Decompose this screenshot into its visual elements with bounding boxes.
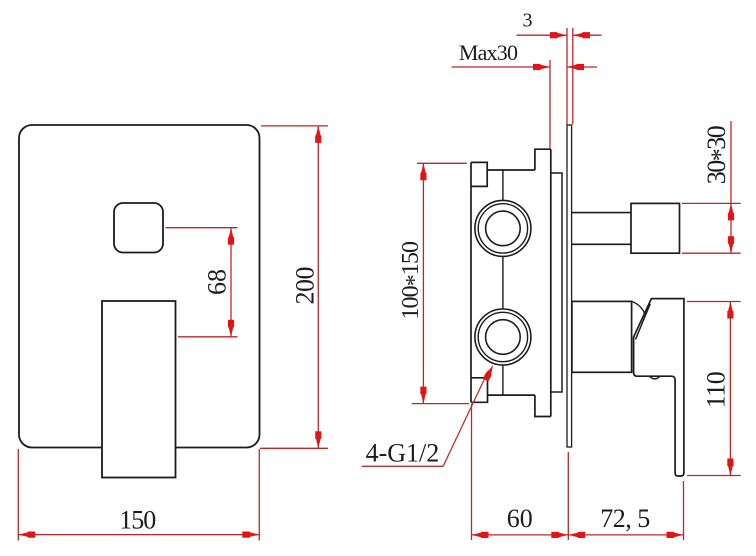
dimension 60 line bbox=[472, 534, 569, 536]
svg-text:30*30: 30*30 bbox=[702, 125, 735, 184]
svg-text:150: 150 bbox=[119, 506, 156, 535]
valve body outline bbox=[471, 149, 551, 416]
svg-text:110: 110 bbox=[702, 371, 731, 408]
svg-text:4-G1/2: 4-G1/2 bbox=[366, 439, 440, 468]
dimension 150 arrow left bbox=[18, 532, 29, 537]
dimension 3 extension line right bbox=[572, 28, 574, 125]
spout pipe bottom line bbox=[572, 243, 631, 245]
dimension 72,5 line bbox=[568, 534, 683, 536]
lever chamfer line bbox=[636, 304, 651, 340]
svg-text:100*150: 100*150 bbox=[398, 241, 428, 320]
dimension 110 arrow down bbox=[728, 465, 733, 476]
dimension 60 arrow left bbox=[472, 532, 483, 537]
svg-text:60: 60 bbox=[507, 504, 533, 533]
dimension 150 extension line right bbox=[258, 449, 260, 541]
dimension Max30 line right part bbox=[567, 66, 597, 68]
dimension 72,5 arrow right bbox=[673, 532, 684, 537]
dimension 110 extension line top bbox=[687, 301, 741, 303]
dimension 150 extension line left bbox=[17, 449, 19, 541]
top inlet port circles bbox=[475, 200, 531, 256]
dimension 30x30 arrow down bbox=[728, 242, 733, 253]
dimension Max30 line left part bbox=[452, 66, 551, 68]
body sleeve behind plate bbox=[551, 173, 562, 392]
dimension 150 arrow right bbox=[248, 532, 259, 537]
front-view mounting plate bbox=[19, 125, 260, 448]
leader 4-G1/2 underline bbox=[362, 465, 444, 467]
dimension 72,5 extension line right bbox=[683, 481, 685, 540]
side-view lever handle bbox=[634, 299, 684, 476]
dimension 200 line bbox=[317, 126, 319, 448]
dimension 200 arrow down bbox=[316, 437, 321, 448]
wall plate edge-on bbox=[567, 125, 572, 447]
dimension 100x150 arrow down bbox=[421, 393, 426, 404]
spout end block 30x30 bbox=[631, 203, 680, 253]
bottom inlet port circles bbox=[475, 309, 531, 365]
leader arrowhead bbox=[486, 365, 493, 376]
svg-text:72, 5: 72, 5 bbox=[600, 504, 650, 533]
dimension 68 extension line top bbox=[166, 227, 238, 229]
leader 4-G1/2 diagonal bbox=[443, 371, 488, 467]
dimension Max30 extension line bbox=[549, 60, 551, 149]
handle stem block bbox=[572, 301, 632, 372]
dimension Max30 arrow right bbox=[539, 64, 550, 69]
dimension 72,5 arrow left bbox=[568, 532, 579, 537]
dimension 100x150 arrow up bbox=[421, 163, 426, 174]
dimension 68 line bbox=[230, 228, 232, 337]
dimension 30x30 extension line top bbox=[682, 202, 741, 204]
spout pipe top line bbox=[572, 212, 631, 214]
dimension 110 extension line bottom bbox=[687, 475, 741, 477]
dimension 30x30 line bbox=[730, 121, 732, 253]
dimension Max30 arrow left bbox=[567, 64, 578, 69]
dimension 68 arrow up bbox=[228, 228, 233, 239]
dimension 3 arrow right bbox=[556, 33, 567, 38]
dimension 3 line left part bbox=[517, 34, 567, 36]
dimension 60 extension line left bbox=[471, 404, 473, 540]
svg-text:68: 68 bbox=[203, 269, 232, 295]
dimension 30x30 arrow up bbox=[728, 203, 733, 214]
dimension 200 extension line bottom bbox=[260, 447, 328, 449]
dimension 100x150 line bbox=[422, 163, 424, 403]
diverter button bbox=[114, 203, 163, 253]
dimension 110 arrow up bbox=[728, 302, 733, 313]
dimension 68 extension line bottom bbox=[178, 336, 238, 338]
dimension 68 arrow down bbox=[228, 326, 233, 337]
dimension 100x150 extension line bottom bbox=[412, 403, 469, 405]
shared extension line at wall plate bbox=[567, 452, 569, 540]
front-view lever handle bbox=[102, 301, 176, 478]
svg-text:Max30: Max30 bbox=[459, 40, 518, 65]
dimension 30x30 extension line bottom bbox=[682, 252, 741, 254]
dimension 3 extension line left bbox=[566, 28, 568, 125]
dimension 3 arrow left bbox=[573, 33, 584, 38]
lever fillet arc bbox=[632, 301, 645, 313]
dimension 200 extension line top bbox=[261, 125, 328, 127]
dimension 200 arrow up bbox=[316, 126, 321, 137]
set screw bump bbox=[649, 376, 660, 379]
side view centerline bbox=[502, 170, 504, 395]
dimension 3 line right part bbox=[573, 34, 602, 36]
dimension 100x150 extension line top bbox=[417, 162, 467, 164]
dimension 110 line bbox=[729, 302, 731, 476]
dimension 60 arrow right bbox=[557, 532, 568, 537]
dimension 150 line bbox=[18, 534, 259, 536]
svg-text:200: 200 bbox=[291, 266, 320, 304]
svg-text:3: 3 bbox=[523, 10, 533, 32]
